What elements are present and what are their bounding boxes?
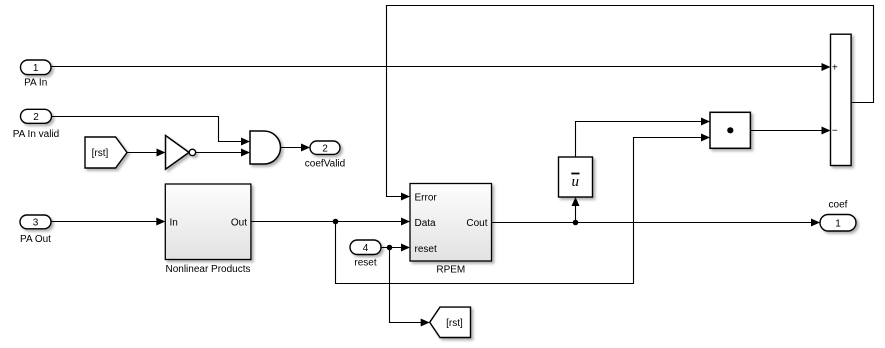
wire W3: From [rst] to NOT gate [127, 152, 159, 154]
AND gate U2 [250, 131, 281, 164]
svg-text:1: 1 [835, 218, 841, 229]
wire W1: PA In to sum + input [51, 66, 823, 68]
svg-text:PA In: PA In [24, 78, 47, 89]
arrowhead into product input 1 [701, 118, 710, 126]
svg-text:[rst]: [rst] [446, 318, 463, 329]
wire W9: RPEM Cout to coef output port [492, 222, 814, 224]
wire W5: AND gate to coefValid port [281, 147, 304, 149]
arrowhead into AND input 2 [241, 149, 250, 157]
arrowhead into NOT gate [157, 149, 166, 157]
wire W13: sum output feedback loop to RPEM Error [387, 6, 874, 197]
wire W6: PA Out to Nonlinear Products In [51, 221, 158, 223]
junction node B on Cout wire [573, 220, 579, 226]
svg-text:coefValid: coefValid [305, 158, 345, 169]
arrowhead into RPEM reset [401, 244, 410, 252]
wire W10: branch from node B up into conjugate block [575, 204, 577, 223]
svg-text:u: u [572, 174, 580, 190]
wire W7: Nonlinear Products Out to RPEM Data [251, 221, 403, 223]
svg-text:[rst]: [rst] [92, 148, 109, 159]
inport 2 PA In valid [21, 109, 52, 123]
svg-text:RPEM: RPEM [436, 264, 465, 275]
wire W11: conjugate block output to product input 1 [576, 122, 704, 158]
arrowhead into AND input 1 [241, 138, 250, 146]
arrowhead into RPEM Data [401, 218, 410, 226]
NOT gate U1 [166, 136, 196, 170]
inport 4 reset [350, 240, 381, 255]
svg-text:In: In [170, 217, 178, 228]
svg-text:PA Out: PA Out [20, 234, 51, 245]
svg-text:1: 1 [33, 63, 39, 74]
outport 2 coefValid [310, 141, 340, 154]
wire W8: branch from node A down, right, up into product input 2 [336, 138, 704, 284]
junction node C on reset wire [387, 245, 393, 251]
sum block [831, 34, 852, 165]
svg-text:3: 3 [33, 218, 39, 229]
svg-text:Out: Out [231, 217, 247, 228]
From tag [rst] [85, 137, 127, 168]
subsystem RPEM [410, 184, 492, 262]
svg-text:reset: reset [415, 244, 437, 255]
wire W2: PA In valid to AND gate input 1 [52, 117, 244, 142]
wire W14: reset port to RPEM reset [381, 247, 403, 249]
arrowhead into Nonlinear Products In [156, 218, 165, 226]
svg-text:+: + [832, 62, 838, 73]
svg-text:−: − [832, 126, 838, 137]
junction node A on Data wire [333, 219, 339, 225]
svg-text:Cout: Cout [466, 218, 487, 229]
arrowhead into sum + [822, 63, 831, 71]
conjugate block u-bar [559, 157, 593, 197]
wire W15: branch from node C down to Goto [rst] [390, 248, 423, 323]
arrowhead into RPEM Error [401, 193, 410, 201]
inport 3 PA Out [20, 215, 51, 229]
svg-text:2: 2 [322, 143, 328, 154]
svg-text:Error: Error [415, 193, 438, 204]
svg-text:Data: Data [415, 218, 437, 229]
svg-text:Nonlinear Products: Nonlinear Products [165, 264, 250, 275]
wire W12: product output to sum - input [750, 130, 823, 132]
svg-text:reset: reset [354, 258, 376, 269]
svg-text:2: 2 [33, 112, 39, 123]
svg-text:4: 4 [363, 243, 369, 254]
arrowhead into Goto [rst] [421, 319, 430, 327]
inport 1 PA In [21, 60, 52, 75]
svg-text:PA In valid: PA In valid [13, 129, 60, 140]
Goto tag [rst] [430, 307, 471, 337]
arrowhead into sum - [822, 127, 831, 135]
product block (dot product) [710, 112, 750, 148]
arrowhead into coef port [811, 219, 820, 227]
wire W4: NOT gate to AND gate input 2 [196, 152, 243, 154]
arrowhead into coefValid [301, 144, 310, 152]
svg-text:coef: coef [829, 200, 848, 211]
outport 1 coef [820, 215, 856, 232]
arrowhead up into conjugate block [572, 197, 580, 206]
subsystem Nonlinear Products [165, 184, 251, 260]
arrowhead into product input 2 [701, 134, 710, 142]
